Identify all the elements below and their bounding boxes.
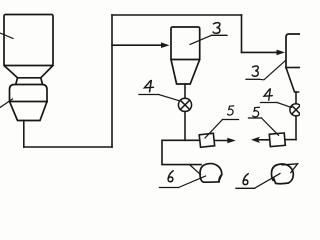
vessel 2 cone bbox=[10, 102, 48, 121]
label 4 text (valve 4a) bbox=[144, 80, 153, 91]
fan 6b inlet wedge bbox=[282, 164, 298, 173]
vessel 2 body bbox=[10, 85, 48, 102]
duct bottom run bbox=[24, 146, 112, 148]
vessel 2 mid line bbox=[10, 101, 48, 103]
arrowhead into cyclone 3a bbox=[161, 42, 170, 48]
line to feeder 5b bbox=[286, 139, 297, 141]
branch line into cyclone 3a bbox=[112, 44, 163, 46]
label 4 (valve 4b): underline bbox=[261, 102, 278, 104]
cyclone 3a cone bbox=[171, 60, 200, 85]
label 6 (fan 6a): underline bbox=[160, 187, 179, 189]
fan 6a bbox=[200, 164, 222, 183]
cyclone 3b cone bbox=[286, 68, 299, 93]
pipe from vessel 2 bbox=[23, 121, 25, 148]
pipe below valve 4b bbox=[295, 116, 297, 140]
fan 6a inlet wedge bbox=[190, 165, 201, 175]
cyclone 3a body bbox=[171, 27, 200, 60]
cyclone 3b dip pipe bbox=[295, 92, 297, 104]
label 3 text (cyclone 3b) bbox=[252, 66, 258, 76]
discharge line from feeder 5a bbox=[215, 140, 231, 142]
label 5 (feeder 5b): underline bbox=[249, 117, 262, 119]
label 6 (fan 6b): underline bbox=[236, 187, 255, 189]
duct to feeder 5a bbox=[162, 140, 201, 164]
leader line to 2 (label cut off at left edge) bbox=[0, 99, 13, 108]
cyclone 3b bottom line bbox=[286, 67, 300, 69]
vessel 2 neck bbox=[16, 78, 43, 85]
arrowhead right bbox=[227, 138, 236, 144]
top duct run bbox=[112, 14, 242, 16]
fan 6b bbox=[271, 164, 293, 184]
label 4 (valve 4a): leader bbox=[159, 95, 179, 101]
riser duct bbox=[111, 15, 113, 147]
label 3 (cyclone 3b): leader bbox=[259, 61, 286, 80]
fan 6a outlet curl bbox=[219, 175, 222, 182]
pipe below valve 4a bbox=[184, 112, 186, 141]
feeder 5a bbox=[199, 133, 214, 147]
label 5 (feeder 5a): underline bbox=[223, 119, 239, 121]
label 3 (cyclone 3a): leader bbox=[190, 35, 212, 44]
label 5 text (feeder 5b) bbox=[253, 107, 260, 117]
label 4 (valve 4b): leader bbox=[277, 103, 292, 108]
cyclone 3b body bbox=[286, 34, 300, 68]
feeder 5b bbox=[269, 133, 285, 147]
label 6 (fan 6b): leader bbox=[255, 174, 281, 189]
label 6 text (fan 6b) bbox=[243, 174, 248, 185]
label 5 (feeder 5a): leader bbox=[205, 120, 223, 139]
hopper 1 funnel bbox=[4, 66, 53, 78]
rotary valve 4a bbox=[178, 98, 191, 111]
label 4 text (valve 4b) bbox=[264, 89, 272, 100]
label 6 (fan 6a): leader bbox=[179, 176, 206, 188]
label 3 (cyclone 3b): underline bbox=[246, 78, 259, 80]
downcomer to cyclone 3b bbox=[241, 15, 243, 52]
feed line into cyclone 3b bbox=[242, 51, 280, 53]
label 3 text (cyclone 3a) bbox=[213, 23, 220, 34]
label 3 (cyclone 3a): underline bbox=[212, 34, 228, 36]
label 4 (valve 4a): underline bbox=[139, 94, 159, 96]
label 6 text (fan 6a) bbox=[168, 171, 173, 182]
cyclone 3a dip pipe bbox=[184, 84, 186, 98]
label 5 text (feeder 5a) bbox=[228, 106, 234, 115]
arrowhead into cyclone 3b bbox=[277, 50, 286, 56]
hopper box 1 bbox=[4, 15, 53, 66]
arrowhead left bbox=[251, 137, 260, 143]
label 5 (feeder 5b): leader bbox=[262, 118, 279, 135]
discharge line from feeder 5b bbox=[258, 139, 270, 141]
rotary valve 4b bbox=[290, 104, 302, 116]
leader line to 1 (label cut off at left edge) bbox=[0, 33, 13, 39]
